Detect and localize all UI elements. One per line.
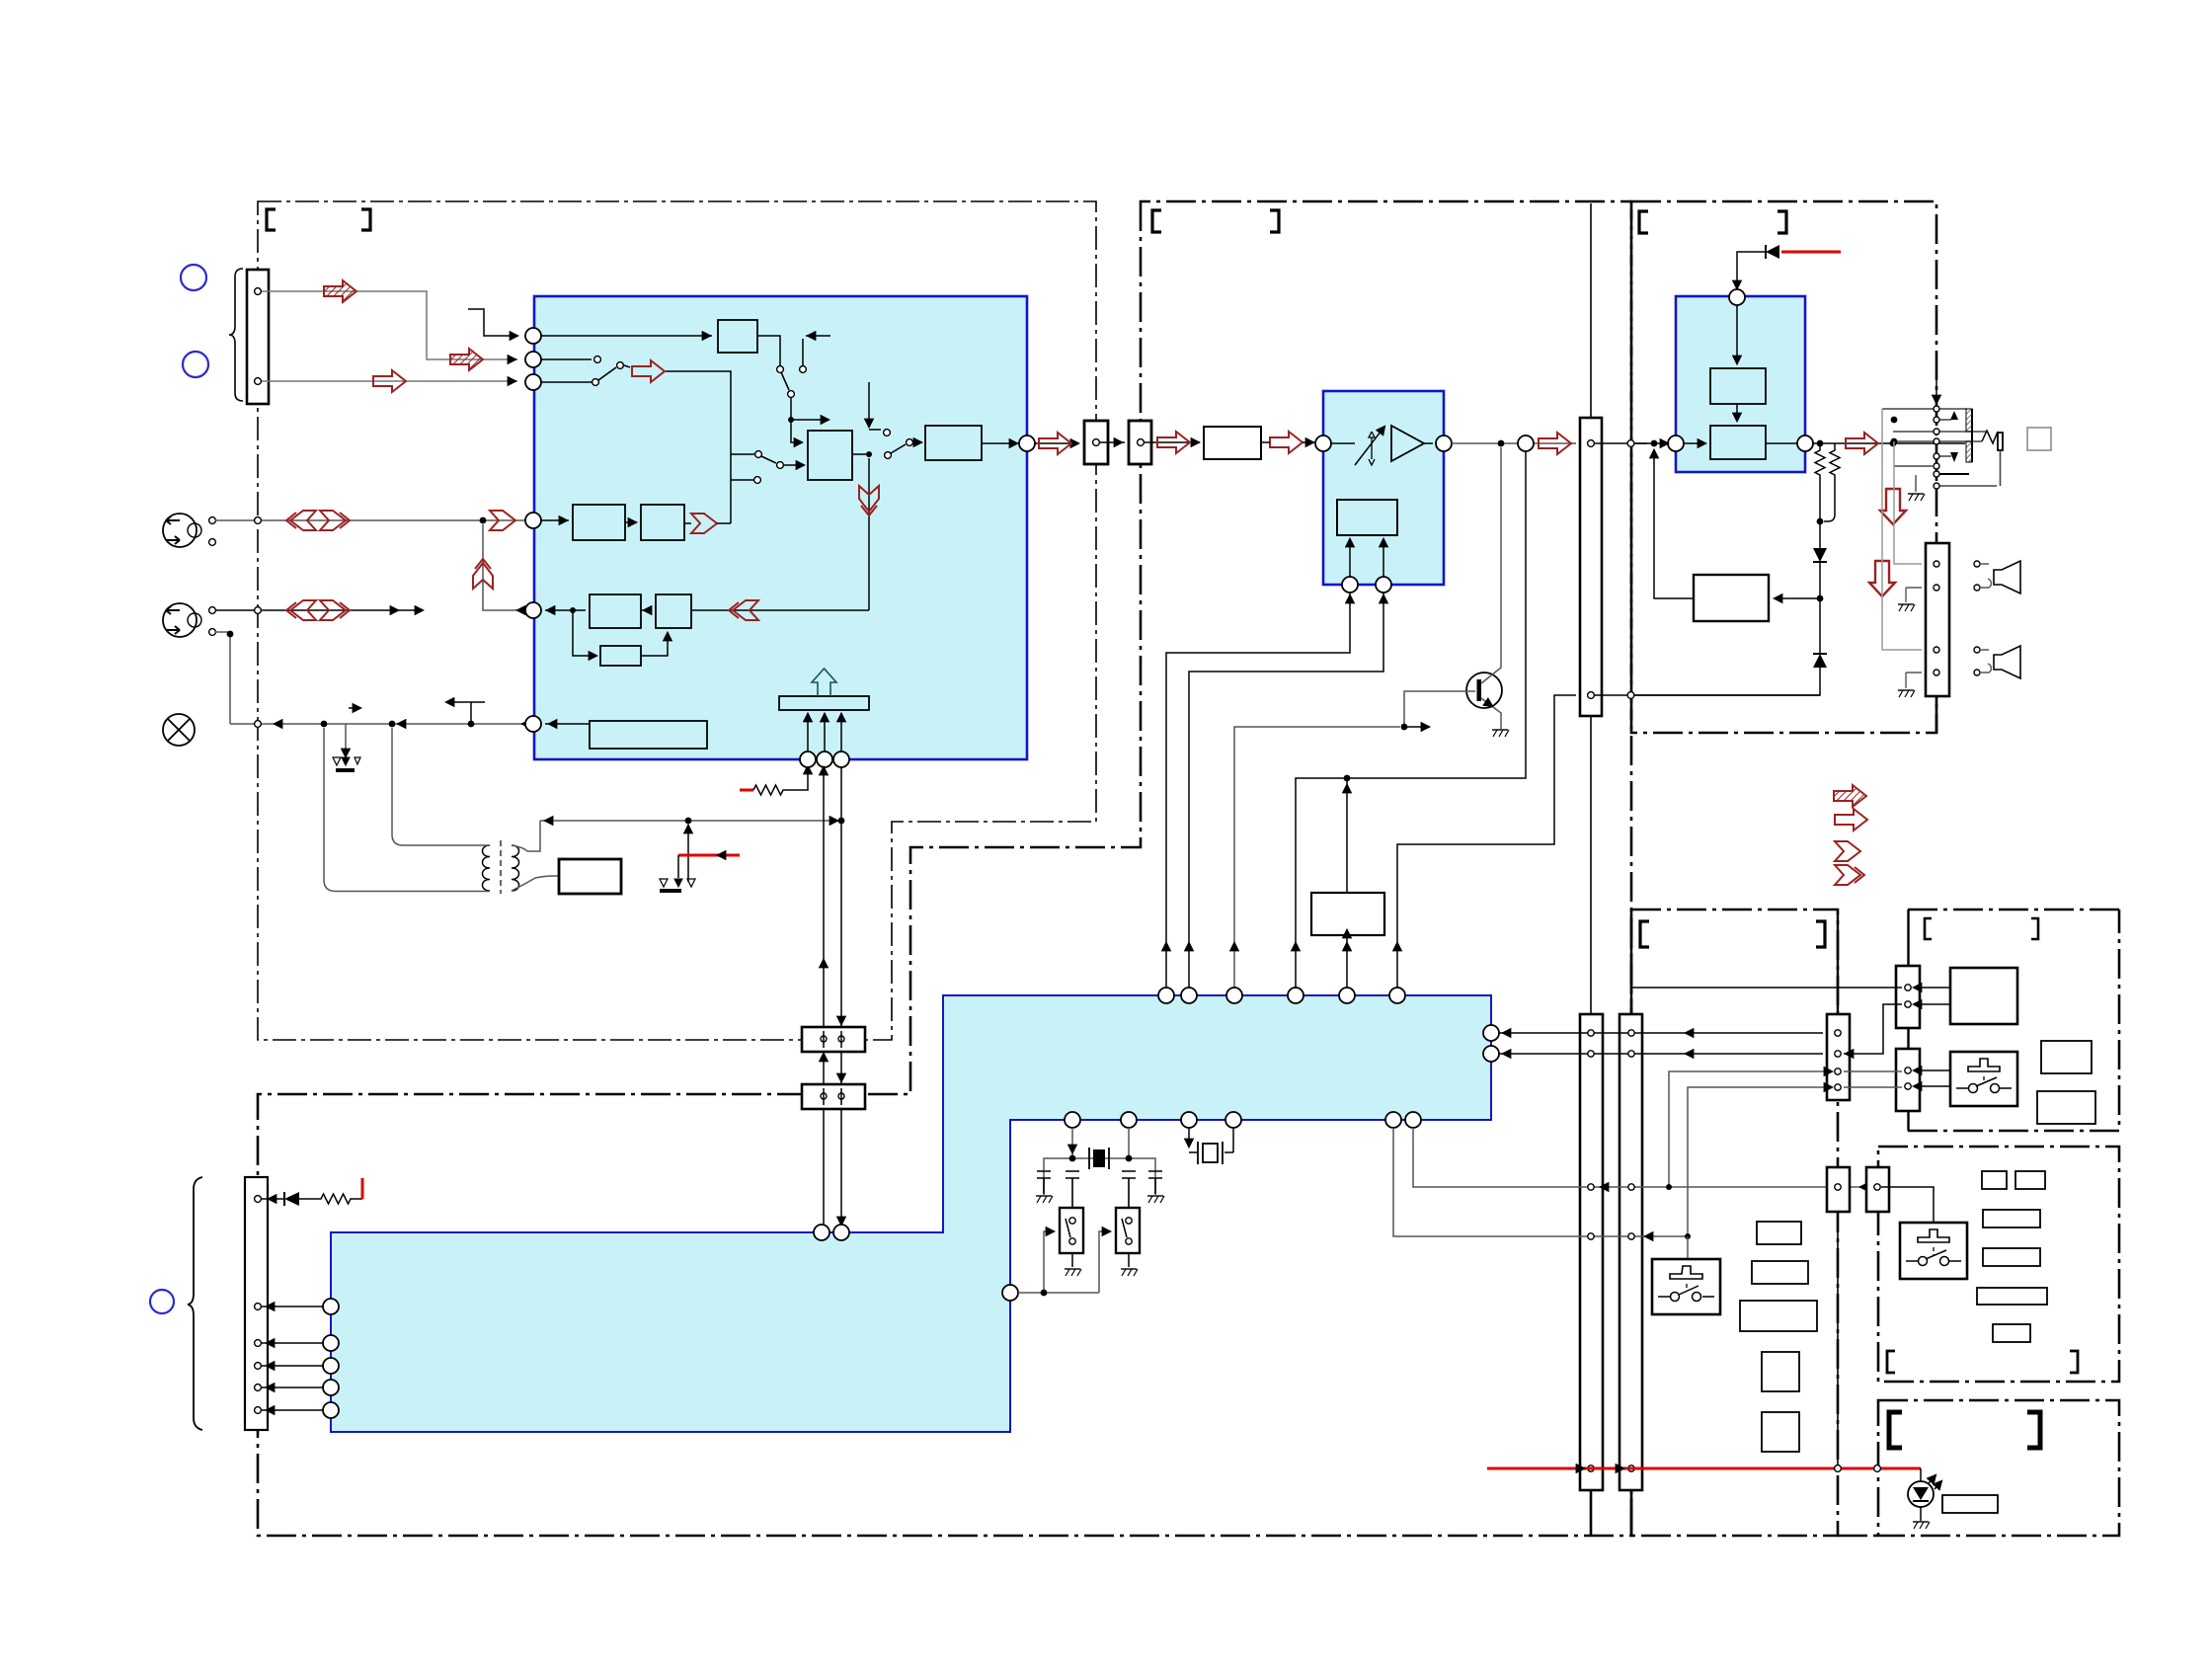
switch S1 lever and pole <box>788 391 795 398</box>
board8 rect <box>1942 1495 1998 1513</box>
box lower pin a <box>821 1093 827 1099</box>
red lead + resistor to IC1 bottom pin1 <box>740 789 753 792</box>
board 2/3 outline (main board, dash-dot) <box>258 201 1631 1536</box>
MCU left pin l3 <box>323 1358 339 1374</box>
mid rect (reset circuit) <box>1311 893 1384 935</box>
PSU rectifier block <box>559 859 621 894</box>
board7 rect R5 <box>1977 1288 2047 1305</box>
jack plug tip <box>1998 433 2003 450</box>
board7 rect R2 <box>2015 1171 2045 1189</box>
red chevron into IC1 pin4 <box>490 511 515 530</box>
junction jack in <box>1890 440 1897 447</box>
IC1 long rect R6 (system control) <box>590 721 707 749</box>
speaker connector SC <box>1926 543 1949 696</box>
board5 rect Rc <box>1740 1301 1817 1331</box>
hollow up arrow above R7 <box>812 669 836 696</box>
mic chevron arrows row2 <box>286 600 316 620</box>
box lower pin b <box>838 1093 844 1099</box>
wire filter to IC2 <box>1261 441 1314 443</box>
boundary circle row1 <box>255 517 262 524</box>
board 5 label brackets <box>1640 921 1649 947</box>
connector column P2 <box>1619 1014 1642 1490</box>
2-pin interboard connector box upper <box>802 1027 865 1052</box>
LED ground <box>1920 1507 1922 1521</box>
IC3 headphone amp IC (cyan block) <box>1676 296 1805 472</box>
feedback wire left <box>1654 449 1694 598</box>
wire row1 to IC1 pin4 <box>215 519 525 521</box>
MCU top pin t4 <box>1288 988 1303 1003</box>
wire C56 pin3 to key row <box>1669 1071 1832 1187</box>
switch S3 pole B <box>777 462 784 469</box>
connector CN2 (bottom left) <box>245 1177 268 1430</box>
jack junction dots <box>1891 417 1898 424</box>
red arrow after filter <box>1270 432 1303 453</box>
IC1 small rect R5 <box>600 646 641 666</box>
CB pins <box>1905 1068 1911 1073</box>
MCU top pin t2 <box>1181 988 1197 1003</box>
IC1 bottom pin c <box>833 752 849 767</box>
wire IC1 pin1 to block A <box>541 335 712 337</box>
wire C7 to SW7 <box>1881 1187 1934 1223</box>
resistor R41 <box>1815 446 1825 479</box>
wire row2 with arrowheads <box>215 609 423 611</box>
wires display to CA <box>1914 988 1950 1004</box>
bus wire row 1048 (MCU r1 to C56) <box>1499 1032 1823 1034</box>
C12a pin <box>1093 439 1100 446</box>
IC2 volume/amp IC (cyan block) <box>1323 391 1444 585</box>
diode D3 (supply) <box>1766 245 1779 259</box>
IC1 pin2 <box>525 352 541 367</box>
open arrow A3 <box>373 370 406 392</box>
direction arrow stub at base junction <box>1404 726 1430 728</box>
board 5 outline (switch board, dash-dot) <box>1631 910 1838 1536</box>
speaker L coil arcs <box>1981 564 1991 588</box>
CN2 brace <box>188 1177 202 1430</box>
redraw link wires through boxes <box>824 1031 841 1105</box>
junction power stub <box>468 721 475 728</box>
jack plug spring <box>1982 431 1998 443</box>
speaker ground b <box>1906 673 1922 688</box>
chassis ground symbol (bulb row) <box>333 757 341 765</box>
boundary circle row2 <box>255 607 262 614</box>
connector C7 (board7 left) <box>1866 1167 1889 1212</box>
CN1 brace <box>229 269 243 401</box>
power direction stub <box>449 702 485 724</box>
red arrow to jack <box>1846 433 1878 454</box>
board 8 outline (LED board, dash-dot) <box>1878 1400 2119 1536</box>
speaker R <box>1994 646 2020 678</box>
tact switch SW6 <box>1950 1052 2017 1106</box>
C7 pin <box>1874 1184 1880 1190</box>
junction feedback <box>1651 440 1658 447</box>
IC1 record path rect R2 <box>641 505 684 540</box>
MCU right pin r1 <box>1483 1025 1499 1041</box>
junction row2b <box>227 631 234 638</box>
switch SW1 (osc) <box>1060 1208 1083 1253</box>
crystal X2 net <box>1189 1128 1233 1152</box>
wire from S2 to S3 contacts <box>624 365 754 523</box>
IC2 bottom pin a <box>1342 577 1358 593</box>
board 4 outline (amp/jack board, dash-dot) <box>1631 201 1936 733</box>
wire mid pin down to MCU pin t4 (with branch) <box>1296 451 1526 988</box>
Q1 collector wire up to audio junction <box>1481 447 1501 683</box>
IC2 control wires from bottom pins <box>1350 539 1383 577</box>
MCU neck pin b <box>833 1225 849 1240</box>
blue circle marker 3 <box>150 1290 174 1313</box>
wire CA pin1 left <box>1631 987 1902 989</box>
junction box1 out <box>866 451 872 457</box>
power transformer T1 <box>483 845 491 891</box>
wire R6 to pin6 <box>545 723 590 725</box>
2-pin interboard connector box lower <box>802 1084 865 1109</box>
junction osc wire <box>1041 1290 1048 1297</box>
junction feedback tap <box>1817 595 1824 602</box>
MCU left pin l2 <box>323 1335 339 1351</box>
wire IC3 out to jack <box>1813 442 1965 444</box>
IC2 right pin <box>1436 436 1452 451</box>
floating direction arrow <box>349 707 360 709</box>
red power wire (to ground cluster) <box>678 854 740 857</box>
bottom boundary extension between board5 and board8 <box>1838 1535 1878 1538</box>
box1 output wire <box>852 453 866 455</box>
board6 display block <box>1950 968 2017 1024</box>
board 2 label brackets <box>1152 210 1161 232</box>
wire CA pin2 to C56 <box>1844 1004 1902 1054</box>
wires pin4 row <box>541 520 637 522</box>
IC3 left pin <box>1668 436 1684 451</box>
IC2 control rect <box>1337 500 1397 535</box>
mic chevron arrows row1 <box>286 511 316 530</box>
SC pins <box>1934 561 1939 567</box>
IC1 right pin <box>1019 436 1035 451</box>
board7 rect R1 <box>1982 1171 2007 1189</box>
feedback rect board4 <box>1694 575 1769 621</box>
IC1 playback rect R3 <box>590 594 641 628</box>
blue circle marker 1 <box>181 265 206 290</box>
MCU mid pin m2 <box>1121 1112 1137 1128</box>
MCU left pin l4 <box>323 1380 339 1395</box>
boundary circle return <box>1627 692 1634 699</box>
IC2 left pin <box>1315 436 1331 451</box>
bus wire row 1252 (MCU m5 to SW5) <box>1393 1128 1688 1236</box>
MCU mid pin m3 <box>1181 1112 1197 1128</box>
wire S1 pole down to box1 <box>791 398 829 442</box>
wire IC2 out to connector TC <box>1452 442 1576 444</box>
jack ground <box>1915 475 1917 492</box>
hatched arrow A1 <box>324 280 356 302</box>
IC1 box1 (switch matrix) <box>808 431 852 480</box>
MCU mid pin m5 <box>1385 1112 1401 1128</box>
CA pins <box>1905 985 1911 990</box>
junction IC3 out <box>1817 440 1824 447</box>
B+ red feed board4 <box>1781 251 1841 254</box>
wire TC pin2 to board4 <box>1595 694 1820 696</box>
MCU side pin (osc enable) <box>1002 1285 1018 1301</box>
capacitor C4 <box>1148 1171 1162 1194</box>
board 6 outline (display board, dash-dot) <box>1908 910 2119 1131</box>
wire C56 pin4 to SW5 row <box>1688 1087 1832 1236</box>
crystal X1 <box>1093 1149 1105 1167</box>
junction after IC2 <box>1498 440 1505 447</box>
C12b pin <box>1138 439 1145 446</box>
board 7 outline (key board, dash-dot) <box>1878 1147 2119 1382</box>
diode D2 <box>1813 654 1827 668</box>
IC1 pin6 <box>525 716 541 732</box>
power rail wire y=831 <box>540 820 841 822</box>
boundary circle bulb row <box>255 721 262 728</box>
red arrow after IC2 <box>1539 433 1571 454</box>
junction SW5 row <box>1685 1233 1691 1239</box>
IC4 system micro computer (cyan polygon) <box>331 995 1491 1432</box>
CN2 pin 4 <box>255 1363 262 1370</box>
board 4 label brackets <box>1639 211 1648 233</box>
wire CN1 pin2 to IC1 pin3 <box>262 380 517 382</box>
junction X1 b <box>1126 1155 1133 1162</box>
MCU left pin l5 <box>323 1402 339 1418</box>
crystal X1 net wire <box>1044 1128 1155 1195</box>
wire S3 pole into box1 <box>784 464 804 466</box>
board5 top boundary stub into P2 <box>1630 938 1632 1014</box>
diode D5 + resistor R5 + red stub <box>262 1198 284 1200</box>
MCU mid pin m6 <box>1405 1112 1421 1128</box>
wires pin5 row (playback chain) <box>545 609 869 611</box>
TC top lead <box>1590 203 1592 418</box>
chassis ground cluster (PSU) <box>660 879 668 887</box>
NC stub wire with left arrow <box>803 336 830 365</box>
MCU mid pin m4 <box>1225 1112 1241 1128</box>
junction S1 pole <box>788 417 794 423</box>
headphone jack body <box>1882 409 1997 486</box>
speaker L <box>1994 561 2020 594</box>
CN1 pin 1 <box>255 288 262 295</box>
junction X1 a <box>1069 1155 1076 1162</box>
row1 pin a <box>209 517 216 524</box>
transistor Q1 <box>1466 673 1502 708</box>
interboard connector C12a <box>1084 421 1108 464</box>
MCU top pin t5 <box>1339 988 1355 1003</box>
board6 rect Rb <box>2037 1091 2095 1124</box>
filter block <box>1204 427 1261 459</box>
board7 rect R3 <box>1983 1210 2040 1227</box>
board5 square Rd <box>1762 1352 1799 1391</box>
IC1 pin3 contact + lever <box>541 381 592 383</box>
board6 rect Ra <box>2041 1041 2092 1073</box>
wire S4 to block B <box>913 441 922 443</box>
capacitor C3 <box>1122 1171 1136 1208</box>
junction power rail <box>838 818 845 825</box>
tall connector TC <box>1580 418 1602 716</box>
Q1 emitter to ground <box>1481 698 1501 729</box>
MCU top pin t3 <box>1226 988 1242 1003</box>
red arrow inside IC1 <box>632 360 665 382</box>
hatched arrow A2 <box>450 349 483 370</box>
tact switch SW5 <box>1687 1236 1689 1259</box>
P1 bottom stub <box>1590 1490 1593 1536</box>
row1 pin b <box>209 539 216 546</box>
CN2 wires to MCU left pins <box>262 1306 323 1307</box>
switch S3 contact C <box>754 477 761 484</box>
red down arrow 1 <box>1880 489 1906 524</box>
arrow after transformer junction <box>398 723 406 725</box>
IC1 pin5 <box>525 602 541 618</box>
P2 pins <box>1628 1030 1634 1036</box>
wire D2 to return line <box>1634 668 1820 695</box>
MCU neck pin a <box>814 1225 829 1240</box>
switch S4 pole + lever <box>885 452 892 459</box>
wire block B to IC1 right pin <box>982 442 1018 444</box>
board 6 label brackets <box>1925 918 1932 939</box>
SC bottom lead to boundary <box>1935 696 1938 733</box>
red down chevron from box1 output <box>868 458 870 610</box>
connector C57 (board5 right) <box>1827 1167 1850 1212</box>
junction on t4 wire <box>1344 775 1351 782</box>
bus wire row 1202 (MCU m6 to C57/C7) <box>1413 1128 1873 1187</box>
capacitor C2 <box>1066 1171 1079 1208</box>
crystal X2 <box>1203 1144 1218 1162</box>
board 1 label brackets <box>267 209 276 230</box>
C57 bottom lead to power <box>1837 1212 1839 1465</box>
wire row2 pinb down to transformer row <box>215 632 230 724</box>
blue circle marker 2 <box>183 352 208 377</box>
CN2 pin 3 <box>255 1340 262 1347</box>
board 8 label brackets <box>1889 1412 1902 1448</box>
legend double chevron <box>1835 865 1864 885</box>
board 1 outline (jack/input board, dash-dot) <box>258 201 1096 1040</box>
wire MCU pin t5 up through mid rect <box>1346 778 1348 988</box>
tact switch SW7 <box>1900 1223 1967 1279</box>
wire resistors join <box>1820 479 1835 548</box>
wires R7 to bottom pins <box>808 713 841 752</box>
line-in jack symbol row 1 <box>163 514 197 547</box>
IC3 rect A <box>1710 368 1766 404</box>
TC pin 1 <box>1588 440 1595 447</box>
MCU right pin r2 <box>1483 1046 1499 1062</box>
wire diode to IC3 top pin <box>1737 252 1766 288</box>
link wire IC1 pinc down to MCU (serial data down) <box>840 767 842 1225</box>
wires SW6 to CB <box>1914 1070 1950 1086</box>
CN2 pin 5 <box>255 1385 262 1391</box>
switch S1 contact a <box>777 366 784 373</box>
junction R join <box>1817 518 1824 525</box>
IC3 top pin <box>1729 289 1745 305</box>
boundary circle power b5 <box>1835 1465 1842 1472</box>
IC1 block A (input amp) <box>718 320 757 353</box>
gray ground stub on bulb row <box>345 724 347 755</box>
audio wire IC1 out to filter <box>1035 442 1200 443</box>
box upper pin b <box>838 1036 844 1042</box>
jack pin circles <box>1934 406 1939 412</box>
board5 square Re <box>1762 1412 1799 1452</box>
IC2 variable attenuator symbol <box>1369 432 1375 465</box>
pilot lamp symbol <box>163 714 195 746</box>
red arrow before filter <box>1157 432 1190 453</box>
IC3 rect B <box>1710 426 1766 459</box>
speaker wires from jack <box>1882 409 1922 650</box>
IC2 amplifier triangle <box>1391 426 1424 461</box>
feedback wire right <box>1775 597 1820 599</box>
IC1 pin3 <box>525 374 541 390</box>
IC1 bottom pin a <box>800 752 816 767</box>
mic jack symbol row 2 <box>163 603 197 637</box>
junction R3 out <box>570 607 576 613</box>
junction base wire <box>1401 724 1408 731</box>
jack detect wire from top <box>1935 372 1937 403</box>
wire TC to board4 boundary <box>1595 442 1647 444</box>
jack tip contact up <box>1950 411 1958 420</box>
wire block A to switch contact S1a <box>757 336 780 365</box>
junction transformer primary top <box>389 721 396 728</box>
IC1 record path rect R1 <box>573 505 625 540</box>
wires CB pins to C56 <box>1844 1071 1902 1087</box>
ground C1 <box>1036 1195 1052 1197</box>
row2 pin b <box>209 629 216 636</box>
diode D1 <box>1813 548 1827 562</box>
boundary circle power b8 <box>1874 1465 1881 1472</box>
ground C4 <box>1147 1195 1163 1197</box>
MCU left pin l1 <box>323 1299 339 1314</box>
connector column P1 <box>1580 1014 1603 1490</box>
box upper pin a <box>821 1036 827 1042</box>
mid pin circle <box>1518 436 1534 451</box>
SW2 ground <box>1128 1253 1130 1267</box>
ground Q1 <box>1492 729 1508 731</box>
wires R5 loop <box>573 610 668 656</box>
LED D8 <box>1920 1468 1922 1481</box>
junction transformer primary bottom lead <box>321 721 328 728</box>
C56 top lead <box>1837 912 1839 1014</box>
board7 rect R6 <box>1993 1324 2030 1342</box>
row2 pin a <box>209 607 216 614</box>
speaker ground a <box>1906 588 1922 602</box>
connector C56 <box>1827 1014 1850 1100</box>
IC1 bottom pin b <box>817 752 832 767</box>
MCU mid pin m1 <box>1065 1112 1080 1128</box>
wire D1 to D2 <box>1819 562 1821 654</box>
IC2 bottom pin b <box>1376 577 1391 593</box>
vcc riser to rail <box>687 825 689 882</box>
legend open arrow <box>1835 809 1867 831</box>
junction key row <box>1666 1184 1672 1190</box>
vertical wire row1-row2 with up chevron <box>483 524 525 610</box>
IC1 main input selector IC (cyan block) <box>534 296 1027 759</box>
board5 rect Ra <box>1757 1222 1801 1244</box>
IC1 pin4 <box>525 513 541 528</box>
jack tip contact down <box>1950 452 1958 462</box>
legend hatched arrow <box>1834 785 1866 807</box>
link wire IC1 pinb down to MCU (serial data up) <box>823 767 825 1225</box>
SC right circles <box>1974 561 1980 567</box>
transformer primary leads <box>324 728 490 892</box>
junction row1 <box>480 517 487 524</box>
TC pin 2 <box>1588 692 1595 699</box>
transformer secondary leads <box>512 821 559 891</box>
P1 pins <box>1588 1030 1594 1036</box>
board6 connector CA <box>1896 966 1920 1028</box>
switch SW2 (osc) <box>1116 1208 1140 1253</box>
IC1 pin2 NC contact <box>541 358 592 360</box>
CN1 pin 2 <box>255 378 262 385</box>
SW1 ground <box>1071 1253 1073 1267</box>
board5 rect Rb <box>1752 1261 1808 1284</box>
switch S3 contact A <box>755 451 762 458</box>
IC1 playback rect R4 <box>656 594 691 628</box>
connector CN1 (top-left input connector) <box>247 270 269 404</box>
resistor R42 <box>1834 443 1836 446</box>
NC contact top + feed stub <box>869 382 881 430</box>
board 7 label brackets <box>1887 1351 1895 1373</box>
C56 pins <box>1835 1030 1841 1036</box>
CN2 pin 1 <box>255 1196 262 1203</box>
